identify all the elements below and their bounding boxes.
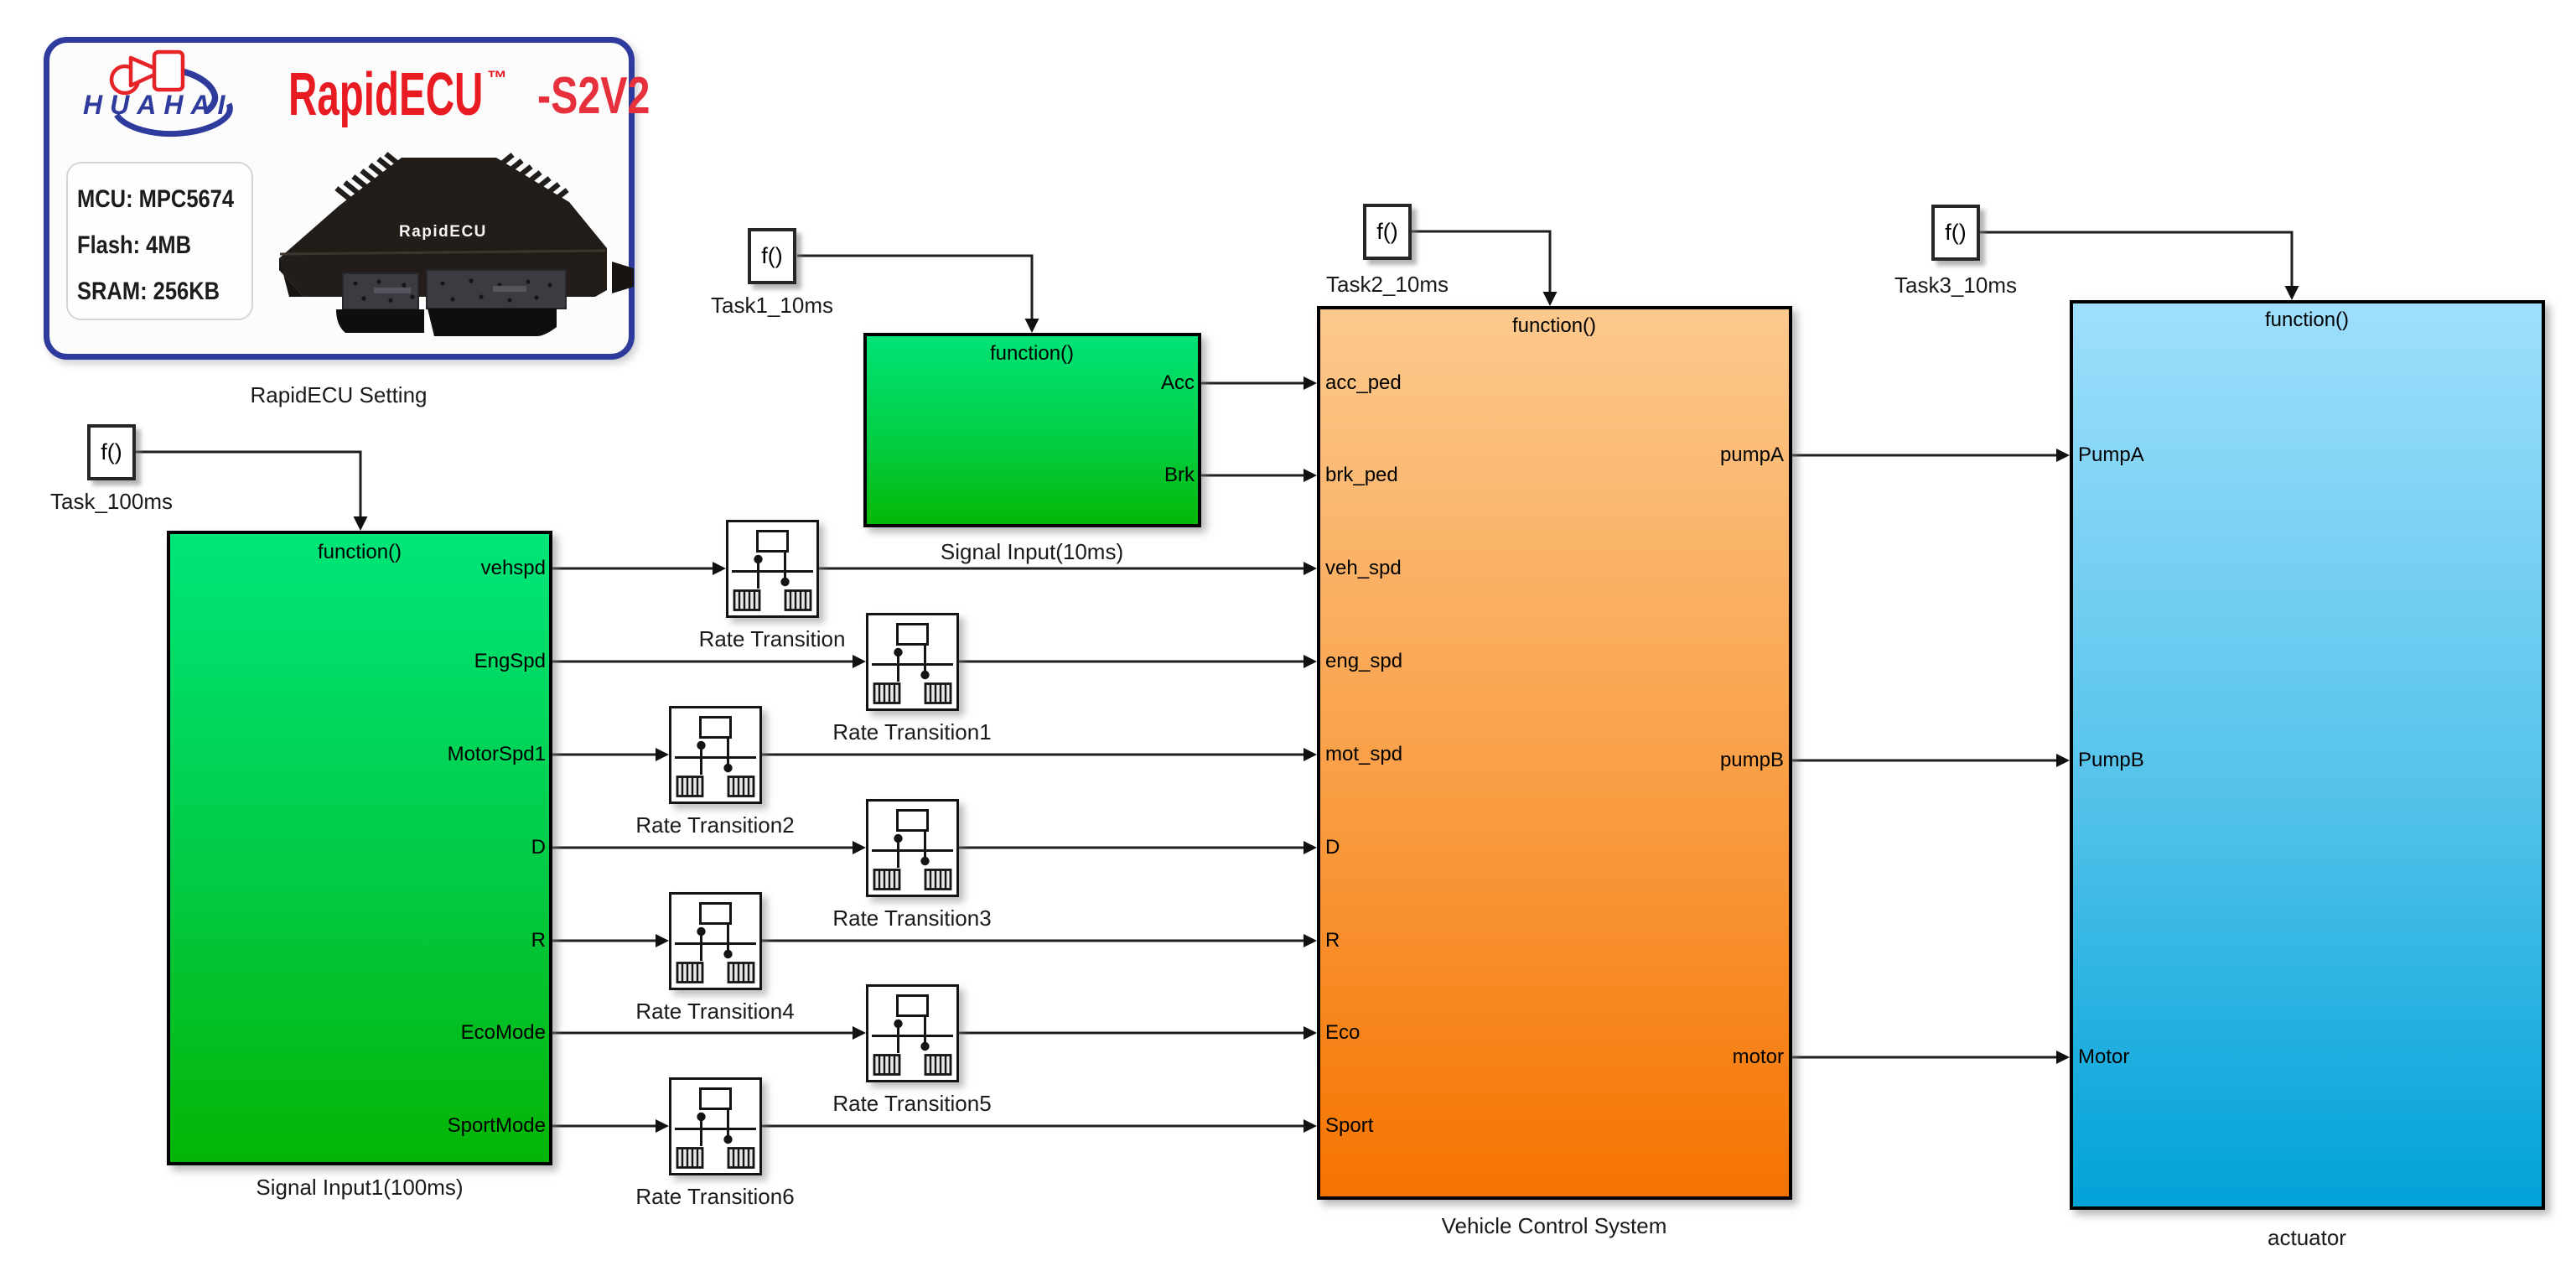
subsystem Vehicle Control System — [1317, 306, 1792, 1200]
arrowheads row3 — [656, 748, 669, 761]
wire pumpB row — [1792, 760, 2058, 762]
ECU bottom left foot — [336, 309, 424, 333]
caption actuator — [2268, 1226, 2346, 1249]
arrowhead into Signal Input1 top — [354, 516, 368, 531]
function() label green2 — [990, 343, 1074, 365]
function() label green1 — [318, 542, 402, 563]
label Rate Transition — [699, 627, 846, 651]
wire EcoMode row — [552, 1032, 854, 1035]
label Rate Transition3 — [832, 906, 991, 930]
ECU connector label strip — [374, 288, 411, 293]
ECU connector right — [427, 270, 566, 309]
block Rate Transition2 — [669, 706, 762, 804]
logo red circle — [111, 66, 138, 93]
logo red triangle — [131, 58, 162, 86]
arrowheads Acc/Brk — [1304, 376, 1317, 390]
label Rate Transition2 — [635, 813, 794, 837]
function() label blue — [2265, 309, 2349, 331]
block Rate Transition — [726, 520, 819, 618]
ECU device photo — [251, 126, 645, 361]
arrowheads row4 — [853, 841, 866, 854]
port vehspd — [378, 558, 546, 579]
ECU right fin bank — [491, 153, 568, 208]
port R — [378, 930, 546, 952]
spec SRAM — [77, 278, 220, 306]
arrowheads row6 — [853, 1026, 866, 1040]
label Task3_10ms — [1894, 273, 2017, 297]
spec MCU — [77, 185, 234, 214]
wire MotorSpd1 row — [552, 754, 657, 756]
port PumpB — [2078, 750, 2144, 771]
wire R row — [552, 940, 657, 942]
block Rate Transition5 — [866, 984, 959, 1082]
port acc_ped — [1325, 372, 1402, 394]
wire Task3_10ms to actuator — [1980, 232, 2292, 288]
block Rate Transition3 — [866, 799, 959, 897]
label Task2_10ms — [1326, 272, 1449, 296]
port MotorSpd1 — [378, 744, 546, 765]
wire Task_100ms to Signal Input1 — [136, 452, 360, 519]
port Brk — [1027, 464, 1195, 486]
heading -S2V2 — [537, 66, 650, 126]
wire EngSpd row — [552, 661, 854, 663]
port D — [378, 837, 546, 859]
ECU bottom right foot — [428, 309, 557, 336]
port EngSpd — [378, 651, 546, 672]
arrowheads row2 — [853, 655, 866, 668]
RapidECU Setting card — [44, 37, 635, 360]
wire Task1_10ms to Signal Input — [797, 256, 1032, 321]
port Eco — [1325, 1022, 1360, 1044]
ECU body slab — [279, 158, 607, 297]
label Rate Transition1 — [832, 720, 991, 744]
caption Signal Input1(100ms) — [256, 1175, 463, 1199]
port mot_spd — [1325, 744, 1402, 765]
arrowheads row1 — [713, 562, 726, 575]
port R (orange) — [1325, 930, 1340, 952]
label Rate Transition4 — [635, 999, 794, 1023]
caption Vehicle Control System — [1442, 1214, 1667, 1237]
caption Signal Input(10ms) — [941, 540, 1123, 563]
port Motor — [2078, 1046, 2129, 1068]
wire vehspd row — [552, 568, 714, 570]
port motor — [1616, 1046, 1784, 1068]
ECU connector pins — [353, 278, 552, 302]
port Acc — [1027, 372, 1195, 394]
arrowhead into Signal Input top — [1025, 319, 1039, 333]
wire pumpA row — [1792, 454, 2058, 457]
trigger f() Task1_10ms — [748, 228, 796, 284]
port Sport — [1325, 1115, 1373, 1137]
port brk_ped — [1325, 464, 1398, 486]
block Rate Transition1 — [866, 613, 959, 711]
wire motor row — [1792, 1056, 2058, 1059]
arrowheads pumpA/pumpB/motor — [2056, 449, 2070, 462]
trigger f() Task2_10ms — [1363, 204, 1412, 260]
HUAHAI logo — [75, 44, 268, 144]
block Rate Transition4 — [669, 892, 762, 990]
subsystem Signal Input(10ms) — [863, 333, 1201, 527]
svg-text:RapidECU: RapidECU — [399, 223, 487, 241]
wire Brk row — [1201, 475, 1305, 477]
port pumpB — [1616, 750, 1784, 771]
block Rate Transition6 — [669, 1077, 762, 1175]
port pumpA — [1616, 444, 1784, 466]
heading RapidECU — [288, 60, 483, 129]
arrowheads row5 — [656, 934, 669, 947]
spec box — [66, 162, 253, 320]
port EcoMode — [378, 1022, 546, 1044]
port PumpA — [2078, 444, 2144, 466]
arrowhead into VCS top — [1543, 292, 1558, 306]
caption RapidECU Setting — [251, 383, 428, 407]
port D (orange) — [1325, 837, 1340, 859]
logo blue swoosh right arc — [172, 70, 215, 112]
svg-text:HUAHAI: HUAHAI — [83, 90, 232, 120]
wire Acc row — [1201, 382, 1305, 385]
wire D row — [552, 847, 854, 849]
ECU front ridge highlight — [280, 251, 605, 254]
arrowhead into actuator top — [2285, 286, 2299, 300]
subsystem Signal Input1(100ms) — [167, 531, 552, 1165]
trigger f() Task_100ms — [87, 424, 136, 480]
ECU left fin bank — [334, 152, 407, 206]
port eng_spd — [1325, 651, 1402, 672]
wire Task2_10ms to Vehicle Control System — [1412, 231, 1550, 294]
function() label orange — [1512, 315, 1596, 337]
wire SportMode row — [552, 1125, 657, 1128]
ECU right tab — [612, 262, 634, 293]
label Task_100ms — [50, 490, 173, 513]
label Rate Transition6 — [635, 1185, 794, 1208]
ECU left tab — [279, 258, 303, 297]
ECU connector left — [343, 273, 418, 309]
label Rate Transition5 — [832, 1092, 991, 1115]
logo blue swoosh bottom arc — [117, 104, 230, 134]
heading trademark — [487, 67, 507, 91]
spec Flash — [77, 231, 191, 260]
trigger f() Task3_10ms — [1931, 205, 1980, 261]
port SportMode — [378, 1115, 546, 1137]
port veh_spd — [1325, 558, 1402, 579]
subsystem actuator — [2070, 300, 2545, 1210]
arrowheads row7 — [656, 1119, 669, 1133]
label Task1_10ms — [711, 293, 833, 317]
logo red rounded square — [154, 52, 183, 90]
